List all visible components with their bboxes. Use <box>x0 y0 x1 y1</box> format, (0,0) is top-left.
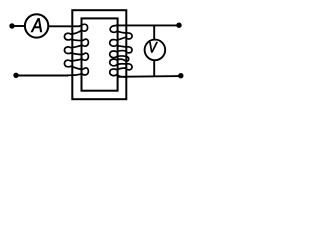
wire <box>153 25 155 40</box>
voltmeter label V <box>149 42 157 52</box>
terminal dot bottom-left <box>13 73 18 78</box>
wire <box>48 25 79 27</box>
wire <box>116 24 179 26</box>
primary winding L1 <box>64 24 88 75</box>
wire <box>117 75 181 78</box>
terminal dot bottom-right <box>178 73 183 78</box>
wire <box>153 60 155 77</box>
ammeter U1 circle <box>25 14 48 37</box>
transformer core outer rectangle <box>72 10 126 99</box>
wire <box>12 25 25 27</box>
wire <box>16 75 68 77</box>
terminal dot top-right <box>176 23 181 28</box>
transformer core inner rectangle <box>82 18 118 90</box>
ammeter label A <box>31 18 42 32</box>
secondary winding L2 <box>110 25 132 77</box>
voltmeter U2 circle <box>145 40 166 61</box>
terminal dot top-left <box>9 23 14 28</box>
